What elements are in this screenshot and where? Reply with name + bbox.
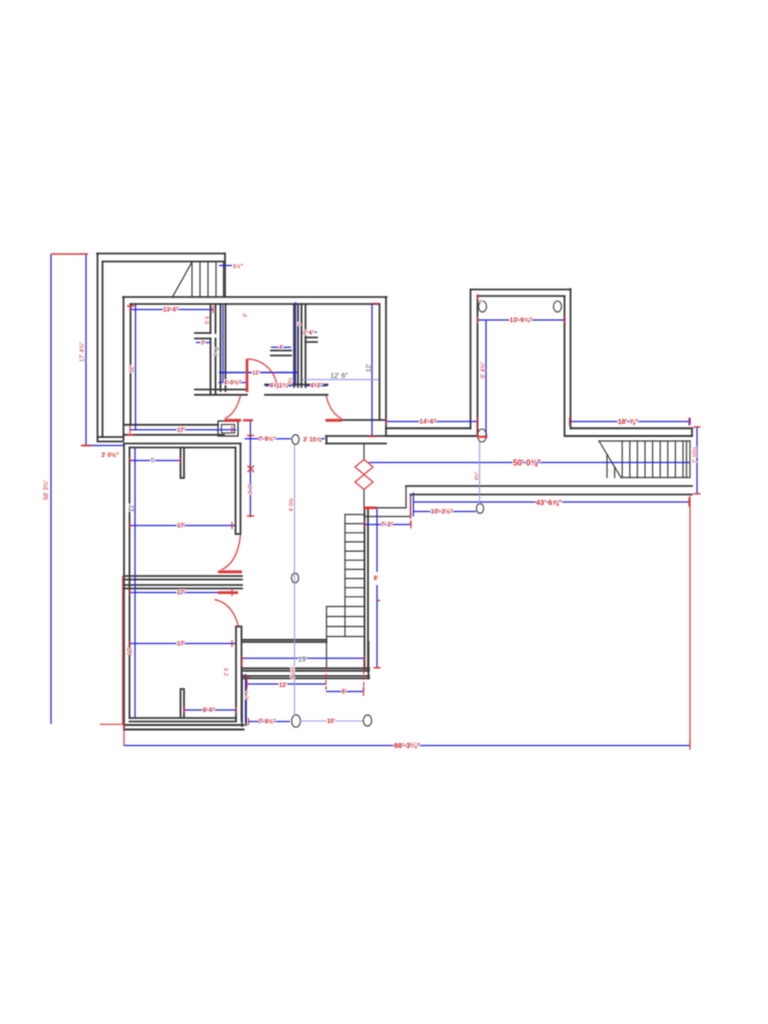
svg-text:5' 6: 5' 6 xyxy=(205,316,211,324)
wall: main block right inner xyxy=(379,304,381,420)
door leaf: bottom right door xyxy=(326,419,343,422)
wall: lower-left block bottom inner xyxy=(130,718,237,722)
red tick: 14ft6 end xyxy=(476,418,478,437)
svg-text:4": 4" xyxy=(243,313,249,318)
door arc: hall door xyxy=(247,359,277,389)
svg-text:8' 6": 8' 6" xyxy=(203,708,216,714)
dim: lower room 5ft xyxy=(130,460,181,462)
wall: lower-left block left outer xyxy=(123,444,125,731)
svg-text:50' 0⅜": 50' 0⅜" xyxy=(513,458,541,467)
stair: central stair right wall xyxy=(365,509,369,671)
wall: room divider stub upper xyxy=(181,448,185,479)
gridline: faint top wall overlay xyxy=(131,309,213,311)
gridline: vertical column line at tower xyxy=(479,442,481,504)
wall: middle room bottom band xyxy=(195,385,328,395)
dim: room 8ft6 xyxy=(184,709,236,711)
red tick: 17 upper band ends xyxy=(130,426,232,433)
dim: hall 12ft xyxy=(219,372,297,374)
dim: entry 7ft9-1/2 bottom xyxy=(249,721,291,723)
svg-text:12' 6": 12' 6" xyxy=(330,373,348,380)
dim: left vertical 17ft-4 xyxy=(85,254,87,445)
wall: interior pair1 right line xyxy=(215,304,217,394)
wall: left band lower xyxy=(386,435,478,437)
wall: interior pair3 xyxy=(294,304,298,387)
stair: central wide box left edge xyxy=(326,607,328,669)
dim: 43ft6-5/8 xyxy=(414,501,689,503)
red segment: landing wall xyxy=(364,506,377,509)
wall: mid landing wall P xyxy=(377,507,406,509)
red dashes: at wall R corner xyxy=(410,497,412,527)
column circle band junction xyxy=(478,429,487,442)
svg-text:19': 19' xyxy=(298,656,307,663)
wall: left wing left outer xyxy=(97,254,99,442)
dim: closet 3ft xyxy=(196,342,210,344)
gridline: vertical column line left xyxy=(294,445,296,716)
svg-text:12': 12' xyxy=(130,365,136,373)
dim: stair 7ft3 xyxy=(364,524,411,526)
svg-text:2' 4: 2' 4 xyxy=(245,691,251,699)
entry column ellipse bottom left xyxy=(292,715,301,727)
dim: bottom 13 xyxy=(247,683,326,685)
wall: main block top inner xyxy=(131,303,379,305)
door arc: bottom right door xyxy=(326,396,342,419)
dim: 14ft6 xyxy=(386,421,477,423)
red tick: 13/6 ends xyxy=(244,678,364,697)
wall: bump left closure xyxy=(326,436,328,444)
dim: entry stair width 1-1/2 xyxy=(219,265,232,267)
wall: interior pair1 left line xyxy=(210,304,212,394)
dim: stair 8ft vertical xyxy=(376,509,378,668)
red tick: right vertical dim ends xyxy=(694,427,701,494)
wall: bump lower lines xyxy=(326,436,386,444)
wall: left wing top outer xyxy=(97,253,225,255)
wall: left wing top inner xyxy=(103,261,225,263)
dim: right side vertical 7ft10 xyxy=(696,427,698,495)
wall: tower left outer xyxy=(470,290,472,429)
dim: tower width 13ft9 xyxy=(478,319,566,321)
svg-text:2' 6": 2' 6" xyxy=(303,330,315,336)
red tick: through junction circle xyxy=(478,436,488,438)
gridline: 12ft6 hall line xyxy=(302,379,379,381)
dim: upper block bottom 17ft xyxy=(130,429,236,431)
column circle tower left xyxy=(479,301,487,312)
svg-text:13': 13' xyxy=(279,683,288,689)
red tick: 19 ends xyxy=(242,655,364,666)
dim: lower room 17 upper xyxy=(130,525,236,527)
door leaf: bottom left door xyxy=(225,419,242,422)
door leaf: lower-left second door xyxy=(218,591,238,594)
dim: 18ft-7/8 xyxy=(570,421,690,423)
red arrow: 8ft dim bottom xyxy=(374,601,381,668)
svg-text:4' 0⅝: 4' 0⅝ xyxy=(289,498,295,512)
svg-text:4' 0½": 4' 0½" xyxy=(224,379,242,386)
wall: closet stub right xyxy=(306,338,318,343)
red tick: 14ft6 left end xyxy=(385,418,387,425)
red tick: 12 vertical ends xyxy=(368,304,378,437)
red: bottom-left corner horizontal xyxy=(100,723,124,725)
wall: tower top outer xyxy=(471,289,571,291)
svg-text:7' 6: 7' 6 xyxy=(215,347,221,357)
dim red: top-left overall tie xyxy=(51,253,88,255)
door leaf: lower-left room door xyxy=(218,570,242,573)
wall: interior pair2 xyxy=(221,304,226,391)
svg-text:1': 1' xyxy=(478,298,483,302)
red tick: room1 bottom xyxy=(127,434,134,436)
wall: main block left outer xyxy=(123,297,125,440)
svg-text:12': 12' xyxy=(129,504,136,512)
wall: shelf stub middle room xyxy=(271,351,291,356)
stair: entry stair diagonal xyxy=(173,262,192,296)
svg-text:5': 5' xyxy=(297,322,303,326)
fireplace box inner xyxy=(222,425,235,434)
wall: left wing left inner xyxy=(102,262,104,438)
stair: central treads narrow xyxy=(327,515,365,669)
wall: corridor right closure xyxy=(368,642,370,679)
red dashes: stair opening right xyxy=(363,658,365,690)
wall: mid corner vertical xyxy=(405,487,407,508)
dim: chase vertical xyxy=(222,305,224,382)
svg-text:12': 12' xyxy=(366,364,373,372)
entry column ellipse mid xyxy=(291,573,298,583)
wall: lower-left block left inner xyxy=(129,448,131,719)
dim: lower room 17 low xyxy=(130,643,236,645)
dim: bottom vertical small xyxy=(245,674,247,722)
dim: room1 width 13ft6 xyxy=(130,309,213,311)
svg-text:4' 3": 4' 3" xyxy=(310,384,323,390)
svg-text:43' 6⅝": 43' 6⅝" xyxy=(536,498,563,507)
svg-text:4': 4' xyxy=(279,345,284,351)
red tick: 88 line right end xyxy=(689,741,691,750)
wall: break line vertical below bump xyxy=(363,444,365,460)
stair: central treads wide xyxy=(327,607,365,637)
stair: entry stair treads xyxy=(173,262,224,296)
svg-text:17': 17' xyxy=(177,642,186,648)
svg-text:17': 17' xyxy=(177,591,186,597)
dim: shelf 4ft xyxy=(271,346,291,348)
svg-text:88' 3¼": 88' 3¼" xyxy=(394,741,421,750)
svg-text:18' ⅞": 18' ⅞" xyxy=(618,419,639,426)
svg-text:17': 17' xyxy=(177,524,186,530)
dim: 3ft0-1/2 left wing xyxy=(86,445,124,447)
wall: lower-left block top xyxy=(124,444,241,448)
dim: corridor 19 xyxy=(242,657,364,659)
svg-text:5': 5' xyxy=(151,459,155,465)
red tick: corridor verticals xyxy=(247,436,254,517)
wall: mid divider wall B xyxy=(124,585,242,589)
door arc: lower-left room door xyxy=(221,535,241,570)
svg-text:7' 3": 7' 3" xyxy=(381,523,394,529)
stair: right stair top edge xyxy=(599,441,690,478)
wall: right band lower xyxy=(565,435,692,437)
dim: bottom 6 xyxy=(326,691,364,693)
stair: right stair bottom edge xyxy=(621,477,690,479)
dim: 10ft3-1/2 xyxy=(414,511,476,513)
dim: lower-left vertical 12 xyxy=(134,448,136,719)
dim: 4ft11-3/4 xyxy=(265,385,292,387)
dim: 4ft0-1/2 xyxy=(219,382,247,384)
column circle tower right xyxy=(554,301,562,312)
wall: corner vertical R xyxy=(410,495,412,517)
red tick: tower dim right xyxy=(564,316,566,324)
svg-text:4¾": 4¾" xyxy=(475,471,481,480)
gridline: entry bottom 10ft xyxy=(300,720,363,722)
svg-text:13' 9⅝": 13' 9⅝" xyxy=(510,317,533,324)
svg-text:3': 3' xyxy=(201,341,206,347)
red: extension along left wall xyxy=(122,576,124,724)
entry column ellipse bottom right xyxy=(363,715,371,726)
svg-text:6': 6' xyxy=(342,690,347,696)
grid ellipse at 10ft line xyxy=(476,504,483,514)
red tick: 5ft dim xyxy=(130,457,180,464)
wall: center corridor bottom band xyxy=(242,668,369,678)
dim: tick top right stair xyxy=(689,418,691,425)
door arc: bottom left door xyxy=(225,396,241,419)
svg-text:10' 3½": 10' 3½" xyxy=(431,508,454,516)
svg-text:4' 0⅝: 4' 0⅝ xyxy=(291,666,297,680)
svg-text:58' 3¾": 58' 3¾" xyxy=(44,480,50,500)
svg-text:1½": 1½" xyxy=(233,263,244,270)
svg-text:7' 10½: 7' 10½ xyxy=(692,446,699,463)
door arc: lower-left second door xyxy=(215,600,239,627)
svg-text:3' 0½": 3' 0½" xyxy=(101,452,119,459)
stair: right stair diagonal xyxy=(599,441,621,478)
wall: long wall Q xyxy=(406,485,692,487)
wall: tower right outer xyxy=(570,289,572,428)
red: bottom-left corner vertical xyxy=(123,724,125,746)
wall: tower left inner xyxy=(477,296,479,436)
svg-text:2' 8: 2' 8 xyxy=(224,668,230,676)
wall: main block bottom right of door xyxy=(342,419,387,421)
svg-text:3' 0": 3' 0" xyxy=(248,484,254,495)
svg-text:7' 9½": 7' 9½" xyxy=(258,719,276,726)
svg-text:13' 6": 13' 6" xyxy=(163,308,179,314)
wall: long wall R xyxy=(411,494,693,496)
stair: central run left edge xyxy=(344,515,346,637)
wall: lower-left block right lower stub xyxy=(236,627,242,722)
red tick: room1 top corner xyxy=(127,305,134,307)
red long vertical right xyxy=(689,496,691,746)
wall: right band upper xyxy=(571,427,693,429)
svg-text:9' 4¾": 9' 4¾" xyxy=(481,362,487,379)
dim: 3ft10-7/8 link xyxy=(318,438,325,440)
svg-text:14' 6": 14' 6" xyxy=(419,419,436,426)
red tick: tower dim left xyxy=(477,316,479,324)
red tick: left wing bottom xyxy=(81,445,91,447)
dim: pair3 vertical xyxy=(295,302,297,386)
fireplace box outer xyxy=(218,421,238,436)
wall: main block right outer xyxy=(385,297,387,436)
wall: closet stub left xyxy=(195,333,211,339)
door leaf: hall door vertical xyxy=(246,359,249,392)
dim: 4ft3 xyxy=(306,385,328,387)
dim: overall left vertical 58ft xyxy=(50,254,52,724)
red mark: threshold right of fireplace xyxy=(243,419,253,421)
dim: lower room 17 mid xyxy=(130,592,236,594)
dim: closet right 2ft6 xyxy=(301,331,317,333)
svg-text:17' 4¾": 17' 4¾" xyxy=(80,342,86,362)
svg-text:12': 12' xyxy=(252,371,260,377)
dim: corridor vertical 3ft0 xyxy=(249,421,251,517)
svg-text:3' 10⅞: 3' 10⅞ xyxy=(303,438,322,444)
red tick: tower top-left corner xyxy=(477,294,479,300)
red tick: 18ft ends xyxy=(570,418,690,426)
break diamond upper xyxy=(355,460,373,475)
red tick: 7ft3 ends xyxy=(364,521,411,529)
stair: right stair treads xyxy=(607,441,683,478)
svg-text:3½: 3½ xyxy=(287,377,294,385)
wall: lower-left block right upper xyxy=(236,444,241,535)
svg-text:17': 17' xyxy=(177,428,186,434)
red tick: 13ft6 ends xyxy=(130,306,213,313)
stair: right stair right edge xyxy=(687,441,691,478)
wall: tower right inner xyxy=(564,296,566,436)
svg-text:12': 12' xyxy=(128,647,134,655)
wall: bottom room stub xyxy=(181,689,185,718)
red tick: bottom 7ft9 xyxy=(248,718,250,725)
wall: right band right closure xyxy=(691,428,693,436)
wall: entry stair right edge xyxy=(224,254,226,297)
dim: tick vertical at 413 xyxy=(412,493,414,517)
wall: center corridor top xyxy=(242,640,327,642)
wall: main block bottom left band xyxy=(124,425,224,435)
svg-text:4' 11¾: 4' 11¾ xyxy=(270,383,289,390)
red arrow mark on corridor vertical xyxy=(248,466,255,473)
dim: 50ft0-3/8 xyxy=(369,462,690,464)
wall: interior pair4 xyxy=(302,304,306,387)
red tick: 43ft right end xyxy=(688,498,690,507)
wall: wall S to stair xyxy=(365,516,411,518)
wall: lower-left block bottom outer xyxy=(124,725,244,730)
dim: room1 height 12 vertical xyxy=(135,305,137,430)
wall: mid divider wall A xyxy=(124,576,242,580)
dim: tower vertical xyxy=(485,320,487,437)
svg-text:10': 10' xyxy=(327,719,336,725)
red dashes: stair opening left xyxy=(325,668,327,690)
entry column ellipse left xyxy=(292,435,299,445)
wall: corridor left vertical xyxy=(242,674,246,726)
red tick: lower rooms dim ends xyxy=(130,522,232,647)
dim: 7ft9-1/2 top xyxy=(245,438,292,440)
break diamond lower xyxy=(355,475,373,490)
wall: main block top outer xyxy=(123,296,387,298)
dim: right room vertical 12 xyxy=(371,303,373,437)
dim: overall bottom 88ft xyxy=(124,745,690,747)
wall: left band upper xyxy=(386,427,471,429)
svg-text:7' 9½": 7' 9½" xyxy=(258,436,276,443)
svg-text:8': 8' xyxy=(374,576,379,582)
wall: tower top inner xyxy=(478,295,565,297)
red tick: 8ft6 dim xyxy=(184,707,236,714)
wall: main block left inner xyxy=(130,304,132,425)
wall: left wing bottom xyxy=(98,437,124,442)
